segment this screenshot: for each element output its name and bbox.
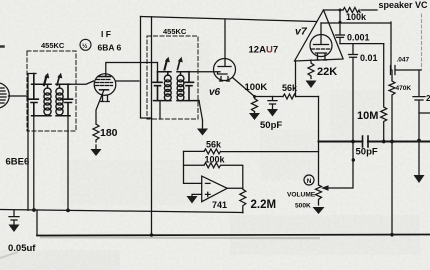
ground (T2 secondary) <box>202 120 204 128</box>
ground (0.05uf) <box>9 225 20 233</box>
tube V5 6BA6 IF amplifier <box>94 74 116 102</box>
resistor R6 470K <box>389 70 395 142</box>
label circled 1/2 <box>80 39 91 50</box>
wire T1 secondary return to bus <box>67 116 69 211</box>
tube V7 triode with triangle <box>295 10 344 61</box>
ground (100K resistor) <box>254 112 256 114</box>
node dot (detector node) <box>253 95 256 98</box>
wire ground bus A <box>0 210 243 213</box>
potentiometer VOLUME 500K <box>316 185 322 205</box>
op-amp U1 741 <box>202 176 228 202</box>
svg-text:22K: 22K <box>317 66 337 78</box>
svg-text:2: 2 <box>426 94 430 103</box>
wire top feedback line <box>141 17 317 22</box>
wire 56k input line <box>184 150 319 152</box>
wire wiper riser <box>326 142 353 189</box>
wire T1 secondary to 6BA6 grid <box>70 81 94 84</box>
ground (right cap) <box>414 175 425 183</box>
svg-text:6BA 6: 6BA 6 <box>98 43 122 53</box>
svg-text:N: N <box>307 178 312 185</box>
svg-text:VOLUME: VOLUME <box>287 192 316 199</box>
node blob on wiper riser (scan mark) <box>352 158 355 161</box>
node dot (bus A x35) <box>32 208 36 212</box>
node dot (x392) <box>390 140 394 144</box>
capacitor C7 0.01 <box>349 44 358 142</box>
wire thick audio line y141.5 <box>319 141 430 143</box>
resistor R4 22K cathode <box>308 60 314 79</box>
wire W1 horizontal y70 <box>395 69 421 71</box>
svg-text:50pF: 50pF <box>356 147 378 158</box>
inductor L4 (T2 secondary) <box>177 75 184 101</box>
svg-text:10M: 10M <box>357 110 378 122</box>
svg-text:v6: v6 <box>209 87 221 98</box>
capacitor C3 (T2 primary) <box>153 72 162 101</box>
wire 6BA6 plate up and right to IF2 <box>106 63 158 77</box>
wire T1 primary return to bus <box>33 116 35 211</box>
slug arrow (T1 primary) <box>44 76 47 85</box>
svg-text:100K: 100K <box>245 82 268 93</box>
capacitor C8 .047 series <box>391 66 396 75</box>
node dot (bus A x70) <box>66 209 70 213</box>
inductor L2 (T1 secondary) <box>56 88 63 115</box>
wire v7 grid drop <box>295 61 297 97</box>
svg-text:100k: 100k <box>205 155 226 165</box>
capacitor C10 50pF series <box>363 136 369 147</box>
svg-text:v7: v7 <box>295 26 308 38</box>
wire V6 plate up to feedback line <box>224 19 226 66</box>
resistor R9 100k feedback <box>204 163 220 168</box>
wire T2 secondary top to V6 <box>189 71 214 73</box>
svg-text:741: 741 <box>212 200 227 210</box>
resistor R5 100k (speaker line) <box>343 8 360 13</box>
resistor R7 10M <box>381 44 387 141</box>
wire 470K drop to bottom bus <box>391 142 393 235</box>
svg-text:56k: 56k <box>206 140 222 150</box>
wire bus A to bus B connector <box>36 210 38 236</box>
wire plate top line <box>324 9 344 11</box>
capacitor C4 (T2 secondary) <box>185 72 194 101</box>
wire to speaker VC <box>361 9 377 11</box>
wire V6 output diagonal to 100K node <box>233 78 255 97</box>
wire T2 primary bottom to bus (drop) <box>159 101 161 119</box>
IF transformer T1 dashed can <box>27 51 76 131</box>
inductor L3 (T2 primary) <box>164 75 171 101</box>
node dot (0.001 plate tap) <box>339 21 342 24</box>
inductor L1 (T1 primary) <box>44 88 51 115</box>
svg-text:0.01: 0.01 <box>360 53 378 63</box>
ground (180 resistor) <box>95 145 97 149</box>
wire stub right at y113 <box>419 112 430 114</box>
wire detector node <box>255 96 284 98</box>
knob symbol circled N <box>304 175 314 185</box>
wire input stub at left edge <box>0 45 4 48</box>
resistor R2 100K vertical <box>252 97 258 112</box>
wire v7 plate to coupling line <box>321 22 391 70</box>
svg-text:50pF: 50pF <box>260 120 282 131</box>
svg-text:2.2M: 2.2M <box>251 199 277 211</box>
resistor R10 2.2M <box>240 188 246 213</box>
wire 100k feedback line <box>184 165 243 188</box>
svg-text:½: ½ <box>82 42 88 50</box>
capacitor C6 0.001 <box>336 10 345 44</box>
ground (volume pot) <box>313 207 325 214</box>
wire inverting input junction <box>184 151 202 183</box>
svg-text:I F: I F <box>101 29 111 39</box>
slug arrow (T2 secondary) <box>178 60 181 70</box>
wire 6BA6 screen to B+ line <box>116 80 139 82</box>
svg-text:500K: 500K <box>295 203 311 210</box>
node dot (x353) <box>351 140 355 144</box>
node dot (470K drop at bus B) <box>390 233 394 237</box>
capacitor C2 (T1 secondary) <box>64 84 73 116</box>
tube V6 detector diode <box>214 59 236 82</box>
svg-text:100k: 100k <box>346 12 367 22</box>
ground (22K) <box>306 81 317 89</box>
slug arrow (T1 secondary) <box>57 76 60 85</box>
resistor R1 180 <box>93 124 99 142</box>
capacitor C1 (T1 primary) <box>29 74 38 116</box>
wire ground bus B <box>37 235 430 236</box>
capacitor C11 0.05uf <box>9 210 19 224</box>
svg-text:180: 180 <box>100 127 118 139</box>
wire long vertical left of IF2 <box>141 17 152 119</box>
svg-text:0.05uf: 0.05uf <box>8 243 36 254</box>
label plus <box>206 192 211 196</box>
svg-text:0.001: 0.001 <box>347 33 370 43</box>
ground (op-amp + input) <box>187 196 198 204</box>
wire detector to volume feed <box>296 96 319 98</box>
resistor R8 56k (op-amp input) <box>204 149 220 154</box>
svg-text:6BE6: 6BE6 <box>6 157 30 168</box>
ground (50pF) <box>267 109 278 117</box>
tube 6BE6 (converter, clipped at left edge) <box>0 83 9 109</box>
capacitor C5 50pF to ground <box>268 97 277 109</box>
svg-text:455KC: 455KC <box>41 41 65 50</box>
wiper arrow <box>321 185 329 191</box>
slug arrow (T2 primary) <box>165 60 168 70</box>
wire T2 secondary bottom diagonal to ground <box>199 101 203 120</box>
wire right edge drop (faint) <box>421 14 423 70</box>
svg-text:speaker VC: speaker VC <box>379 0 429 10</box>
wire 6BA6 cathode down <box>96 90 104 124</box>
svg-text:470K: 470K <box>396 85 412 92</box>
wire op-amp output <box>227 187 243 189</box>
wire 6BE6 plate to IF1 <box>9 74 37 97</box>
svg-text:455KC: 455KC <box>163 27 187 36</box>
node dot (10M bottom) <box>382 140 386 144</box>
wire non-inverting input <box>192 194 202 196</box>
wire volume feed vertical <box>318 97 320 186</box>
node dot (long vertical at bus B) <box>150 233 153 236</box>
svg-text:.047: .047 <box>397 57 410 64</box>
wire long vertical through IF2 to bottom bus <box>151 17 153 235</box>
resistor R3 56k horizontal <box>283 94 296 99</box>
node dot (x419) <box>417 139 421 143</box>
IF transformer T2 dashed can <box>147 36 198 119</box>
wire screen/AVC drop to ground bus <box>27 96 29 210</box>
wire coupling line y43.6 <box>340 43 384 45</box>
node dot (0.001 top) <box>339 9 342 12</box>
svg-text:12AU7: 12AU7 <box>249 45 279 56</box>
label minus <box>206 182 211 184</box>
capacitor C9 right edge (clipped) <box>413 70 425 175</box>
